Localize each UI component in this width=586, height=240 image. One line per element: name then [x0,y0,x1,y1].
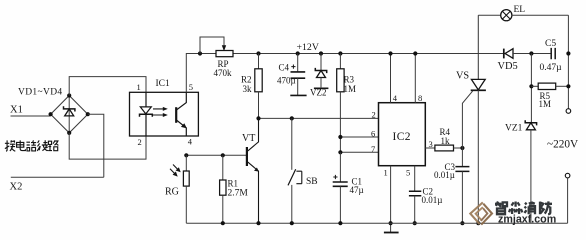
svg-text:5: 5 [189,82,193,92]
svg-text:VD5: VD5 [498,61,518,72]
capacitor C2 [409,191,421,195]
transistor VT [246,147,248,166]
svg-text:VD1~VD4: VD1~VD4 [18,88,63,98]
wire C1 bottom lead [339,186,341,223]
wire IC1 pin4 to VT base [186,154,246,156]
svg-text:RG: RG [165,187,179,198]
wire ground rail [186,222,567,224]
wire EL branch / VS anode [477,15,479,79]
wire VZ2 top lead [320,54,322,71]
zener VZ2 symbol [315,68,326,73]
svg-text:5: 5 [406,168,410,178]
junction R1/rail [221,221,225,225]
wire R5 to terminal column [556,85,569,87]
wire R4 to gate node [454,147,463,149]
junction pin7/C1 [338,150,342,154]
wire top to EL [478,14,500,16]
C1 polarity plus [333,175,337,179]
C4 end bar [290,94,306,96]
junction VS/rail [476,221,480,225]
svg-text:3k: 3k [243,84,253,94]
photoresistor RG body [183,171,189,186]
wire C2 bottom lead [414,196,416,224]
wire IC2 pin8 to rail [414,54,416,103]
IC1 phototransistor [175,107,177,123]
SB actuator [296,171,301,184]
wire VZ1 to rail [530,130,532,223]
svg-text:470µ: 470µ [277,76,296,86]
bridge bottom node [67,131,71,135]
svg-text:47µ: 47µ [350,185,364,195]
svg-text:C4: C4 [279,63,290,73]
junction VT/rail [256,221,260,225]
svg-text:SB: SB [306,177,318,187]
terminal lower 220V [565,173,570,178]
junction R3/pin6 [338,135,342,139]
junction R1 tap [221,153,225,157]
wire C1 top lead [339,152,341,181]
junction RP wiper node [198,51,202,55]
svg-text:zmjaxf.com: zmjaxf.com [498,214,556,226]
wire C4 bottom lead [297,78,299,95]
capacitor C1 [333,182,348,186]
svg-text:0.01µ: 0.01µ [422,195,443,205]
svg-text:VS: VS [456,70,469,81]
wire R2 top lead [258,54,260,69]
wire IC2 pin5 to C2 [414,166,416,191]
wire EL to right column [512,14,569,16]
junction R4/C3/gate [460,146,464,150]
wire +12V rail [233,53,504,55]
bridge right node [86,112,90,116]
svg-text:C5: C5 [545,39,556,49]
wire R1 top lead [222,155,224,180]
junction R5 left [529,84,533,88]
wire VZ2 bottom lead [320,78,322,88]
capacitor C4 [291,72,306,78]
wire C3 bottom lead [461,171,463,223]
RP wiper arrowhead [222,45,226,51]
wire RG top lead [185,155,187,171]
op-amp IC2 timer box [379,103,426,166]
lamp EL [501,10,512,21]
wire lower terminal to rail [567,178,569,223]
svg-text:2: 2 [372,109,376,119]
svg-text:X1: X1 [10,105,23,116]
switch SB blade [288,169,296,185]
wire SB bottom lead [291,185,293,223]
svg-text:1M: 1M [344,84,357,94]
svg-text:1k: 1k [441,136,451,146]
junction rail/R2 [256,51,260,55]
bridge inner diode lead [68,96,70,133]
svg-text:1M: 1M [539,99,552,109]
svg-text:IC1: IC1 [156,79,171,89]
IC1 internal LED [140,92,151,136]
bridge left node [49,112,53,116]
wire VD5 to C5 [513,53,551,55]
svg-text:470k: 470k [214,68,233,78]
RG light arrows [170,165,181,177]
wire node down to VZ1 [530,54,532,123]
svg-text:VZ1: VZ1 [505,124,523,134]
wire R3 bottom lead down to pin7 node [339,92,341,153]
watermark logo [470,202,492,224]
wire to IC2 pin6 [340,136,378,138]
wire to IC2 pin7 [340,151,378,153]
wire bridge AC to X2 riser [88,114,104,177]
wire X1 to bridge left corner [11,115,51,117]
svg-text:+12V: +12V [297,42,319,53]
wire bridge+ to IC1 pin1 [69,77,146,96]
bridge top node [67,93,71,97]
diode VD5 [503,49,505,59]
wire IC1 pin5 up to +12V rail [186,54,216,93]
junction rail/pin8 [413,51,417,55]
thyristor VS [471,79,485,89]
svg-text:IC2: IC2 [393,131,411,143]
resistor R5 [538,83,556,89]
svg-text:1: 1 [137,82,141,92]
resistor RP body [216,51,233,57]
bridge rectifier VD1~VD4 [51,96,88,133]
ground bar [384,232,399,234]
svg-text:VZ2: VZ2 [310,87,327,97]
svg-text:4: 4 [188,136,193,146]
junction C3/rail [460,221,464,225]
wire pin3 to R4 [425,147,435,149]
svg-text:1: 1 [384,168,388,178]
watermark text 智淼消防 [495,201,552,214]
junction C2/rail [413,221,417,225]
svg-text:7: 7 [371,144,375,154]
resistor R3 [337,69,344,92]
wire right column [567,15,569,109]
C4 polarity plus [291,65,295,69]
wire C4 top lead [297,54,299,72]
capacitor C5 [551,48,555,59]
wire C3 top lead [461,148,463,166]
wire IC2 pin4 to rail [390,54,392,103]
wire bridge- to IC1 pin2 [69,133,146,159]
label 接电话线路 (connect phone line) [5,140,59,151]
junction rail/R3 [338,51,342,55]
wire IC2 pin1 to ground [390,166,392,233]
junction SB/rail [290,221,294,225]
resistor R1 [220,180,226,195]
junction pin1/rail [389,221,393,225]
junction C5/column [566,51,570,55]
wire to R5 [531,85,538,87]
zener VZ1 symbol [525,120,536,125]
wire RP wiper arm [200,37,224,54]
wire R2/VT node to IC2 pin2 [259,117,379,119]
wire VS gate [462,91,472,148]
junction R5/column [566,84,570,88]
junction R2-VT-pin2 [256,116,260,120]
svg-text:2: 2 [138,137,142,147]
wire R3 top lead [339,54,341,69]
svg-text:X2: X2 [10,182,23,193]
wire R2 bottom lead [258,92,260,119]
svg-text:8: 8 [418,93,422,103]
capacitor C3 [455,167,469,172]
svg-text:0.47µ: 0.47µ [540,63,563,73]
svg-text:6: 6 [371,128,375,138]
junction rail/pin4 [388,51,392,55]
junction C1/rail [338,221,342,225]
junction pin4/RG [184,153,188,157]
svg-text:EL: EL [514,5,526,15]
wire R1 bottom lead [222,195,224,223]
svg-text:~220V: ~220V [547,139,579,151]
svg-text:0.01µ: 0.01µ [434,170,455,180]
op-amp IC1 optocoupler box [130,92,199,136]
wire SB top lead [291,118,293,169]
svg-text:2.7M: 2.7M [228,189,249,199]
junction VD5/C5/R5 [529,51,533,55]
svg-text:4: 4 [393,93,398,103]
resistor R2 [255,69,262,92]
terminal upper 220V [566,109,571,114]
svg-text:R1: R1 [228,179,239,189]
wire VS cathode to rail [477,90,479,223]
junction SB tap [290,116,294,120]
IC1 light arrows [153,107,168,117]
wire RG bottom lead [185,186,187,223]
wire X2 from bridge riser [11,176,104,178]
svg-text:VT: VT [242,133,255,144]
VZ2 end bar [314,87,329,89]
junction rail/VZ2 [319,51,323,55]
bridge diode symbol [64,106,75,111]
resistor R4 [435,145,454,151]
junction rail/C4 [296,51,300,55]
